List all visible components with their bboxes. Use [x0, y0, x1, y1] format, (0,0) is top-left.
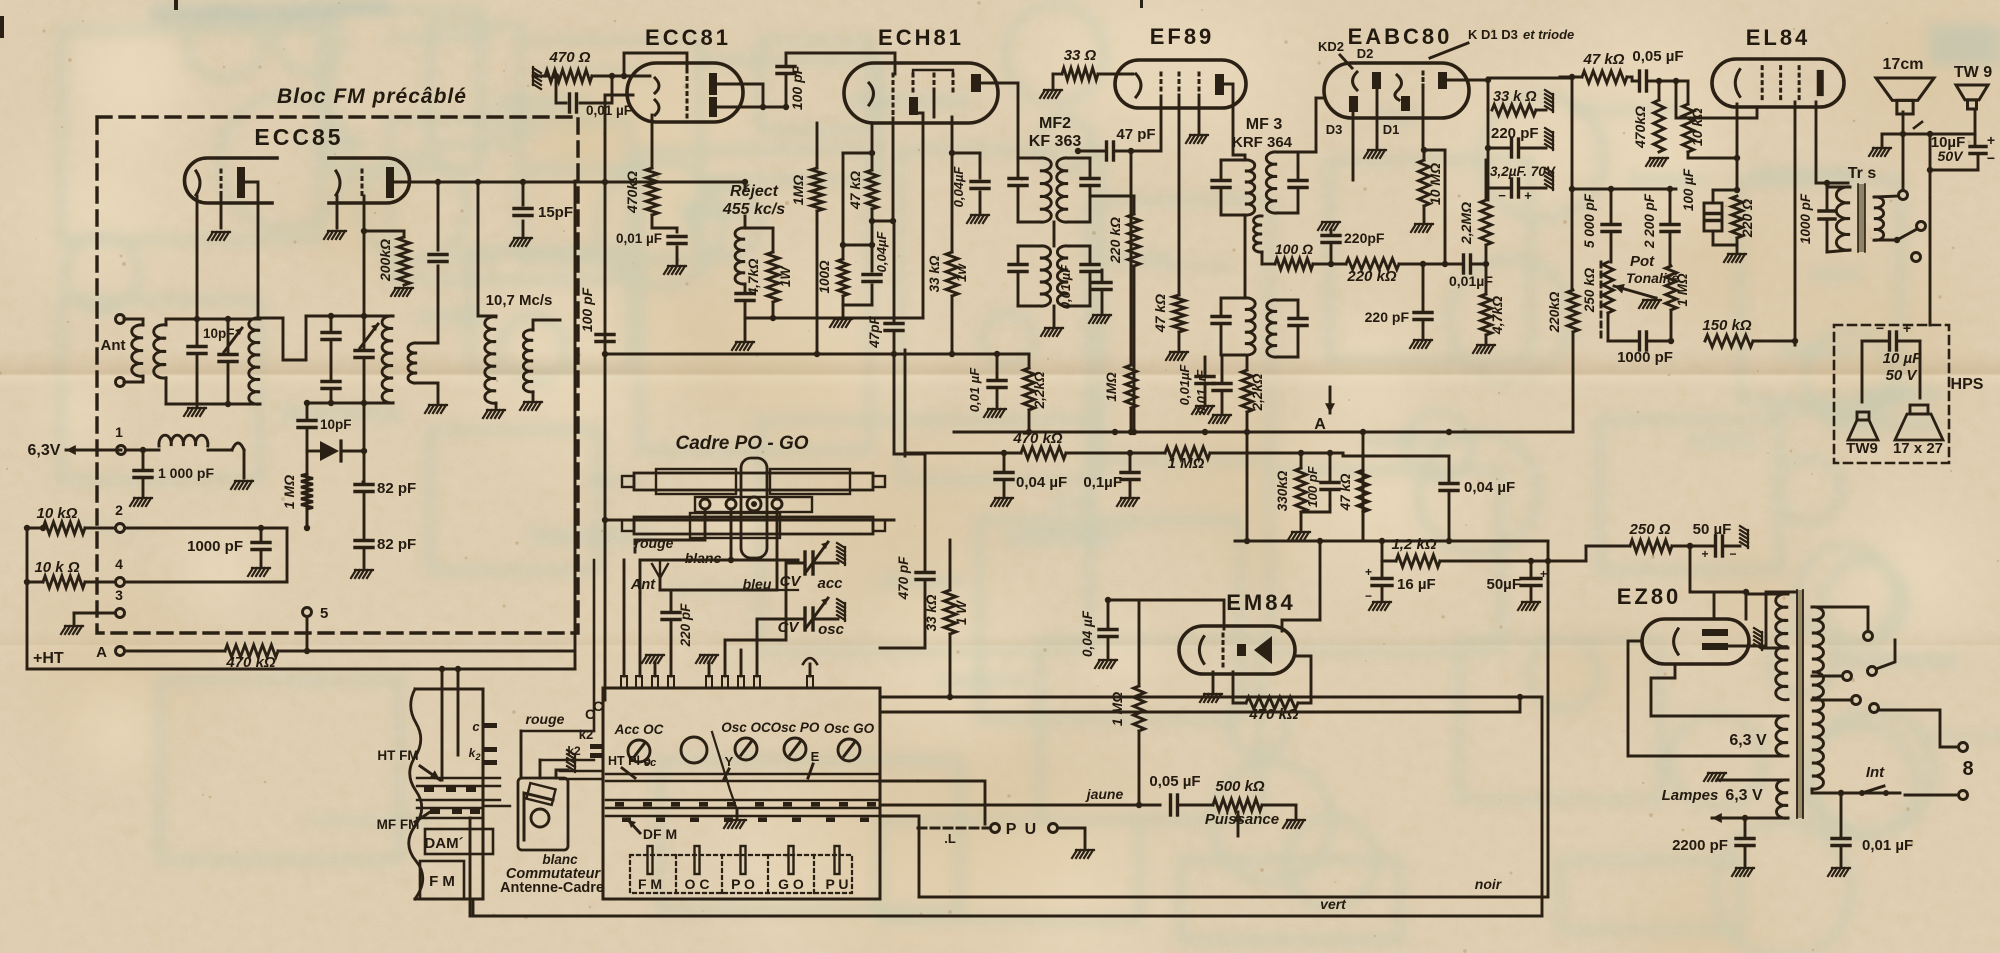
svg-text:0,04µF: 0,04µF: [951, 166, 966, 208]
svg-text:2: 2: [115, 502, 123, 518]
label MF3: [1246, 116, 1283, 133]
svg-text:0,05 µF: 0,05 µF: [1149, 773, 1200, 790]
coil rejector: [735, 228, 745, 284]
svg-text:10 kΩ: 10 kΩ: [37, 505, 78, 522]
label 50V tw9: [1938, 148, 1996, 166]
resistor 220 Ohm el: [1732, 196, 1743, 238]
wire em84 anode up: [1282, 620, 1320, 631]
svg-text:CV: CV: [778, 619, 801, 636]
svg-text:10pF: 10pF: [203, 326, 235, 341]
label 100uF: [1681, 168, 1696, 211]
label TW9 top: [1954, 64, 1992, 81]
capacitor 16uF: [1369, 561, 1392, 610]
diode plate D1: [1401, 96, 1410, 111]
wire triode anode down: [922, 117, 925, 318]
svg-text:Cadre PO - GO: Cadre PO - GO: [675, 433, 808, 454]
label E: [811, 749, 820, 764]
tube EF89: [1115, 60, 1246, 108]
wire det drop: [1442, 150, 1448, 267]
capacitor 1000pF b: [248, 528, 270, 576]
wire 1M down: [816, 211, 819, 354]
tube ECC85 triode 2: [329, 158, 410, 203]
svg-text:0,04 µF: 0,04 µF: [1016, 474, 1067, 491]
label 0.05 el84: [1632, 48, 1683, 65]
wire spk riser: [1927, 131, 1933, 325]
label 2200pF tone: [1642, 193, 1657, 249]
wire row 541: [1235, 538, 1448, 544]
ech81 anode: [971, 74, 990, 92]
svg-text:osc: osc: [818, 621, 845, 638]
anode plate eabc: [1438, 72, 1447, 89]
svg-text:470 pF: 470 pF: [896, 556, 911, 601]
wire pin 709 gnd: [696, 655, 718, 676]
wire tw9 return: [1927, 167, 1978, 173]
resistor 1.2k: [1396, 555, 1440, 567]
capacitor mf2b in: [1009, 246, 1027, 306]
wire ECC85 t1 anode down: [245, 182, 258, 318]
label pin2: [115, 502, 123, 518]
capacitor 2200pF heat: [1732, 818, 1754, 876]
wire jaune row: [1060, 804, 1160, 807]
label HT Pl osc: [608, 754, 656, 769]
svg-text:0,1µF: 0,1µF: [1083, 474, 1122, 491]
wire 1.2k right: [1440, 558, 1534, 564]
wire row 520: [602, 517, 894, 523]
svg-text:Tr s: Tr s: [1848, 165, 1877, 182]
label 0.01 mf2: [1058, 264, 1073, 309]
wire 10k b left: [24, 525, 43, 585]
wire pin4 rail: [85, 581, 287, 584]
label 0.04 ech81: [874, 231, 889, 273]
capacitor mf3 out: [1289, 152, 1307, 213]
terminal tap1: [1864, 632, 1873, 641]
wire bus432 ext: [1330, 429, 1573, 435]
wire 10pF t2 drop: [437, 182, 440, 250]
wire row153b: [949, 150, 980, 156]
svg-text:et triode: et triode: [1523, 27, 1574, 42]
svg-text:250 kΩ: 250 kΩ: [1582, 267, 1597, 313]
switch Int: [1838, 786, 1889, 796]
coil FM detector feed: [408, 343, 438, 383]
svg-text:F M: F M: [429, 873, 455, 890]
resistor 47k agc2: [1358, 470, 1369, 512]
label OC slot: [685, 876, 710, 892]
commutateur gnd stub: [556, 750, 575, 778]
svg-text:−: −: [1987, 150, 1995, 166]
capacitor 0.01 mf2: [1093, 270, 1111, 313]
svg-text:33 kΩ: 33 kΩ: [927, 255, 942, 292]
wire blanc right: [728, 557, 798, 563]
tuner knob osc oc: [735, 738, 757, 760]
wire rej top: [575, 179, 748, 228]
label 82pF b: [377, 536, 416, 553]
label 0.05 pu: [1149, 773, 1200, 790]
capacitor 0.05 pu: [1171, 795, 1214, 815]
label 1M agc: [1168, 455, 1205, 472]
wire HT top tap: [1746, 593, 1788, 596]
wire E to PU: [879, 781, 985, 828]
wire 150k right: [1753, 338, 1798, 344]
terminal pin4: [116, 578, 125, 587]
label L: [944, 831, 956, 846]
wire ecc81 k down: [651, 115, 654, 168]
capacitor 100uF: [1704, 190, 1722, 231]
ground 100ohm: [830, 319, 852, 327]
label KF363: [1029, 133, 1082, 150]
resistor 47k ech81: [867, 153, 878, 245]
wire pin2 rail2: [286, 528, 289, 582]
terminal tap3b: [1870, 704, 1879, 713]
capacitor tank2 a: [322, 316, 340, 380]
wire el84 anode down: [1816, 102, 1848, 183]
ground 220pF det2: [1410, 340, 1432, 348]
ecc85 t1 anode: [237, 171, 245, 194]
wire x1247 drop: [1244, 432, 1250, 544]
label 2.2k ech: [1032, 371, 1047, 409]
wire mf2 bottom gnd: [1041, 306, 1063, 336]
wire row541 ext: [1448, 540, 1548, 543]
fm module ticks: [424, 787, 480, 814]
label 15pF: [538, 204, 573, 221]
capacitor 10pF t2: [429, 255, 447, 262]
svg-text:blanc: blanc: [542, 852, 578, 867]
wire mf3 frame1: [1221, 160, 1245, 215]
wire ECC85 t1 grid down: [220, 196, 223, 228]
wire mf2 link: [1053, 222, 1056, 246]
cathode KD1 arc: [1395, 75, 1402, 100]
wire row153a: [843, 150, 875, 156]
ecc81 anode a: [709, 77, 717, 91]
svg-text:6,3 V: 6,3 V: [1725, 787, 1763, 804]
label 33k tuner 1w: [954, 600, 969, 625]
svg-text:CV: CV: [780, 573, 803, 590]
wire 15pF drop: [522, 182, 525, 205]
node A arrow: [1314, 387, 1335, 433]
wire ant top: [124, 318, 143, 321]
commutateur circle: [531, 809, 549, 827]
tuner bottom dashed: [630, 855, 852, 893]
resistor 2.2k mf3: [1242, 370, 1253, 412]
label EF89: [1150, 24, 1215, 49]
wire 82pF mid: [363, 494, 366, 538]
label lampes: [1662, 787, 1763, 804]
resistor 470kOhm ecc81: [646, 168, 658, 215]
resistor 1MOhm fm: [301, 474, 313, 531]
wire ef89 anode down: [1224, 84, 1245, 160]
wire mf3 mid: [1244, 215, 1247, 298]
HPS dashed box: [1834, 325, 1949, 463]
cadre terminal 3: [772, 499, 782, 509]
svg-text:0,04 µF: 0,04 µF: [1464, 479, 1515, 496]
capacitor CV osc: [798, 598, 838, 630]
capacitor 0.01uF bypass: [556, 76, 612, 112]
FM box: [420, 861, 464, 899]
svg-text:DF M: DF M: [643, 826, 677, 842]
wire ez80 left: [1628, 641, 1783, 756]
wire Y arrow: [724, 769, 729, 779]
label 0.01 ech low: [967, 367, 982, 412]
svg-text:+: +: [1987, 132, 1995, 148]
capacitor 0.04 ratio: [1343, 456, 1458, 544]
label 10.7Mc: [486, 292, 553, 309]
label 4.7k: [746, 258, 761, 296]
wire ecc81 anode b: [717, 104, 786, 110]
wire spk common row: [1869, 131, 1970, 156]
svg-text:0,04 µF: 0,04 µF: [1080, 610, 1095, 657]
capacitor 0.01 eabc: [1464, 255, 1487, 273]
label pin1: [115, 424, 123, 440]
tuner knob plain: [681, 737, 707, 763]
resistor 10M: [1419, 150, 1430, 206]
trimmer tank2: [355, 316, 378, 403]
label 0.01 eabc: [1449, 273, 1493, 289]
label Pot: [1630, 253, 1655, 270]
wire pin 655 gnd: [642, 655, 664, 676]
label Osc OC: [721, 720, 771, 735]
terminal PU b: [1049, 824, 1058, 833]
resistor 100 Ohm det: [1275, 259, 1313, 270]
label 100pF bus: [579, 287, 595, 332]
resistor 470kOhm A: [225, 645, 278, 657]
diode plate D3: [1349, 96, 1358, 112]
wire 2.2M up: [1485, 160, 1488, 200]
label pin3: [115, 587, 123, 603]
resistor 33 Ohm: [1062, 68, 1098, 80]
label EABC80: [1348, 24, 1453, 49]
wire tank2 down: [361, 403, 367, 482]
svg-text:KF 363: KF 363: [1029, 133, 1082, 150]
ech81 grid3: [933, 74, 936, 117]
capacitor 220pF eabc: [1488, 139, 1546, 157]
wire em84 grid top: [1223, 600, 1226, 629]
coil mf2b sec: [1057, 246, 1068, 306]
wire k2 row: [540, 744, 594, 778]
capacitor 10uF tw9: [1970, 147, 1986, 171]
svg-text:100 pF: 100 pF: [1305, 465, 1320, 507]
terminal spk feed: [1876, 134, 1908, 200]
wire blanc row: [640, 509, 731, 593]
fm module rows: [417, 778, 500, 818]
svg-text:E: E: [811, 749, 820, 764]
wire 1M em84 down: [1136, 731, 1142, 808]
capacitor 1000pF out: [1819, 180, 1835, 252]
svg-text:0,01 µF: 0,01 µF: [1058, 264, 1073, 309]
coil antenna primary: [132, 319, 143, 382]
bloc FM dashed enclosure: [97, 117, 578, 633]
svg-text:jaune: jaune: [1085, 786, 1124, 802]
label 1.2k: [1391, 536, 1436, 553]
svg-text:P U: P U: [1006, 821, 1038, 838]
wire 005 to grid: [1676, 81, 1757, 118]
tuner knob acc oc: [628, 740, 650, 762]
wire sector b: [1905, 794, 1958, 797]
wire choke hop: [208, 443, 244, 478]
svg-text:0,01µF: 0,01µF: [1177, 364, 1192, 406]
svg-text:1 MΩ: 1 MΩ: [1168, 455, 1205, 472]
label 1000pF b: [187, 538, 243, 555]
label 330k: [1275, 470, 1290, 511]
svg-text:150 kΩ: 150 kΩ: [1702, 317, 1752, 334]
svg-text:Lampes: Lampes: [1662, 787, 1719, 804]
label GO slot: [778, 876, 804, 892]
svg-text:Antenne-Cadre: Antenne-Cadre: [500, 880, 604, 896]
wire A to 470k: [125, 650, 225, 653]
label 220k det: [1346, 268, 1397, 285]
wire cv osc left: [757, 619, 798, 676]
svg-text:1MΩ: 1MΩ: [1104, 372, 1119, 402]
label Tonalite: [1626, 270, 1679, 286]
label 5000pF: [1582, 193, 1597, 248]
coil 10.7Mc secondary: [523, 330, 533, 392]
svg-text:15pF: 15pF: [538, 204, 573, 221]
svg-text:1 MΩ: 1 MΩ: [1675, 273, 1690, 307]
capacitor 10pF det: [298, 421, 316, 428]
svg-text:MF2: MF2: [1039, 115, 1071, 132]
coil mf2 pri: [1040, 158, 1051, 222]
capacitor mf3b in: [1212, 298, 1230, 355]
svg-text:200kΩ: 200kΩ: [377, 239, 393, 282]
label 470kOhm A: [225, 654, 276, 671]
wire el84 g2 down: [1794, 102, 1797, 345]
label KD1D3: [1468, 27, 1574, 42]
label 33k ech: [927, 255, 942, 292]
left HT bus vertical: [26, 528, 29, 669]
tuner left pins: [560, 744, 603, 779]
label 47k ef89: [1152, 294, 1168, 333]
svg-text:10pF: 10pF: [320, 417, 352, 432]
label MF2: [1039, 115, 1071, 132]
terminal pin2: [116, 524, 125, 533]
capacitor 100pF coupling: [777, 53, 795, 110]
label 100pF coupling: [789, 65, 805, 110]
svg-text:100 pF: 100 pF: [789, 65, 805, 110]
label 33k eabc: [1493, 89, 1537, 105]
cadre screw: [747, 497, 761, 511]
label Trs: [1848, 165, 1877, 182]
svg-text:82 pF: 82 pF: [377, 536, 416, 553]
svg-text:Int: Int: [1866, 764, 1885, 781]
terminal pin3: [116, 609, 125, 618]
wire ECC85 t1 cathode down: [196, 196, 199, 318]
wire bleu row: [660, 509, 798, 590]
svg-text:47 kΩ: 47 kΩ: [847, 171, 863, 210]
speaker 17cm: [1876, 78, 1934, 114]
wire prim bottom: [1812, 789, 1900, 796]
svg-text:3: 3: [115, 587, 123, 603]
label bleu cadre: [743, 576, 772, 592]
label 470k el84: [1632, 106, 1648, 149]
svg-text:47 kΩ: 47 kΩ: [1152, 294, 1168, 333]
wire mf3b frame1: [1221, 298, 1245, 355]
svg-text:Osc PO: Osc PO: [771, 720, 820, 735]
label 1M em84: [1109, 692, 1125, 726]
wire x1542 riser: [1541, 697, 1544, 916]
wire row 697: [880, 694, 1542, 700]
svg-text:4,7kΩ: 4,7kΩ: [746, 258, 761, 296]
svg-text:220pF: 220pF: [1344, 230, 1385, 246]
ground CV osc: [837, 599, 845, 621]
coil mf2 sec: [1057, 158, 1068, 222]
ground 0.01 mf3: [1209, 415, 1231, 423]
trimmer tank1: [219, 319, 242, 404]
label PU: [1006, 821, 1038, 838]
label CV acc: [780, 573, 844, 592]
wire ech81 cathode down: [871, 125, 874, 153]
svg-text:455 kc/s: 455 kc/s: [722, 201, 785, 218]
capacitor 0.04uF osc: [967, 153, 989, 223]
svg-text:C: C: [593, 698, 603, 714]
label 220pF top: [1344, 230, 1385, 246]
svg-text:Osc OC: Osc OC: [721, 720, 771, 735]
wire 1M bottom: [1670, 310, 1673, 341]
coil mf3 sec: [1266, 152, 1277, 213]
terminal tap3: [1852, 696, 1861, 705]
potentiometer 250k: [1603, 262, 1614, 313]
label 470k agc: [1012, 430, 1063, 447]
label 1M mid: [1104, 372, 1119, 402]
coil mf3b sec: [1267, 300, 1277, 357]
wire det row: [1313, 261, 1463, 267]
capacitor CV acc: [798, 542, 838, 574]
svg-text:TW9: TW9: [1846, 440, 1878, 457]
label D1: [1383, 122, 1400, 137]
wire mf3 frame2: [1277, 152, 1298, 213]
svg-text:100 µF: 100 µF: [1681, 168, 1696, 211]
cathode KD2 arc: [1353, 72, 1358, 90]
wire ant sec bottom: [166, 378, 197, 404]
wire ecc81 anode a: [717, 84, 763, 107]
capacitor 220pF det2: [1414, 264, 1432, 338]
label 33k tuner: [924, 594, 939, 631]
wire 220 gnd: [1713, 231, 1746, 262]
svg-text:1 W: 1 W: [954, 600, 969, 625]
wire 10pF t2 down: [437, 266, 440, 343]
svg-text:HT FM: HT FM: [377, 748, 418, 763]
svg-text:33 kΩ: 33 kΩ: [924, 594, 939, 631]
label 4.7k eabc: [1489, 296, 1505, 335]
ech81 grid4: [952, 74, 955, 92]
wire 2.2k mf3: [1246, 357, 1249, 432]
label jaune: [1085, 786, 1124, 802]
wire 47k agc2 down: [1362, 512, 1365, 540]
label 2200pF heat: [1672, 837, 1728, 854]
capacitor 0.01 mains: [1828, 793, 1850, 876]
ground 0.01 ef low: [1192, 406, 1214, 414]
label KD2: [1318, 39, 1344, 54]
svg-text:470 kΩ: 470 kΩ: [225, 654, 276, 671]
svg-text:16 µF: 16 µF: [1397, 576, 1436, 593]
label rouge comm: [526, 711, 565, 727]
capacitor 0.01uF ecc81: [668, 237, 686, 244]
label 0.04 ratio: [1464, 479, 1515, 496]
label D3: [1326, 122, 1343, 137]
label 6.3V: [1729, 732, 1767, 749]
resistor 1M ecc81: [811, 168, 823, 211]
svg-text:+: +: [1540, 567, 1547, 581]
wire pin 624: [623, 560, 626, 676]
coil mf3 pri: [1245, 160, 1255, 215]
wire trs pri top: [1827, 187, 1850, 252]
ground 470k el84: [1646, 158, 1668, 166]
label Bloc FM precable: [277, 85, 467, 108]
label 2.2k mf3: [1250, 373, 1265, 411]
tuner slots: [648, 846, 840, 874]
ground 220pF eabc: [1545, 128, 1553, 150]
wire diode out: [341, 450, 364, 453]
wire ef89 g2 down: [1178, 95, 1181, 295]
svg-text:ECH81: ECH81: [878, 25, 964, 50]
svg-text:4: 4: [115, 556, 123, 572]
